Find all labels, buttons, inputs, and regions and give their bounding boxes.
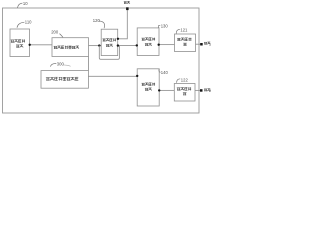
wire switch130 to coupler121	[159, 44, 175, 46]
svg-text:110: 110	[25, 20, 32, 25]
svg-text:1: 1	[209, 41, 211, 46]
wire coupler122 to antenna port 2	[195, 89, 200, 91]
svg-text:121: 121	[180, 27, 188, 32]
junction dot switch140 output	[158, 89, 160, 91]
svg-text:2: 2	[209, 88, 211, 93]
label 300 leader tail	[63, 65, 70, 66]
label 300 leader	[50, 63, 56, 66]
wire amp200 to control300 corner join	[88, 57, 90, 71]
svg-text:120: 120	[93, 18, 101, 23]
label 121 leader	[176, 29, 180, 33]
wire switch120 to switch130	[118, 45, 138, 47]
amplifier circuit box 200	[52, 38, 89, 57]
wire control300 to switch140	[88, 75, 137, 77]
wire switch120 upper output to antenna feed	[118, 8, 128, 38]
antenna port 1 terminal	[200, 43, 203, 46]
antenna feed terminal on enclosure top	[126, 7, 129, 10]
svg-text:140: 140	[161, 70, 169, 75]
switch box 130 (third selection switch)	[137, 28, 159, 56]
svg-text:130: 130	[161, 23, 169, 28]
junction dot switch140 input	[136, 75, 138, 77]
svg-text:122: 122	[181, 78, 189, 83]
label 140 leader	[159, 69, 161, 72]
wire coupler121 to antenna port 1	[196, 43, 201, 45]
wire amp200 to switch120	[89, 45, 102, 47]
label 122 leader	[177, 79, 181, 83]
outer enclosure box 10	[3, 8, 200, 113]
junction dot switch130 output	[158, 44, 160, 46]
label 120 leader	[99, 21, 105, 28]
antenna feed label	[124, 1, 130, 3]
label 110 leader	[17, 22, 24, 28]
switch box 140 (fourth selection switch)	[137, 69, 159, 106]
coupler box 121 (first coupler)	[175, 34, 196, 52]
label 10 leader	[17, 3, 22, 8]
junction dot switch120 upper	[117, 38, 119, 40]
junction dot switch110 output	[29, 44, 31, 46]
coupler box 122 (second coupler)	[174, 84, 195, 102]
svg-text:200: 200	[51, 29, 59, 34]
junction dot switch130 input	[136, 44, 138, 46]
bypass wire under switch120	[99, 46, 119, 60]
control circuit box 300	[41, 71, 88, 89]
wire switch110 to amp200	[30, 44, 53, 46]
antenna port 2 label	[204, 89, 210, 92]
junction node J1	[98, 44, 100, 46]
junction dot switch120 lower	[117, 44, 119, 46]
svg-text:300: 300	[57, 61, 65, 66]
antenna port 2 terminal	[200, 89, 203, 92]
svg-text:10: 10	[23, 1, 28, 6]
label 200 leader	[59, 34, 63, 38]
wire switch140 to coupler122	[159, 89, 174, 91]
antenna port 1 label	[204, 42, 210, 45]
switch box 120 (second selection switch)	[101, 29, 118, 55]
switch box 110 (first selection switch)	[10, 29, 30, 57]
label 130 leader	[158, 25, 160, 27]
